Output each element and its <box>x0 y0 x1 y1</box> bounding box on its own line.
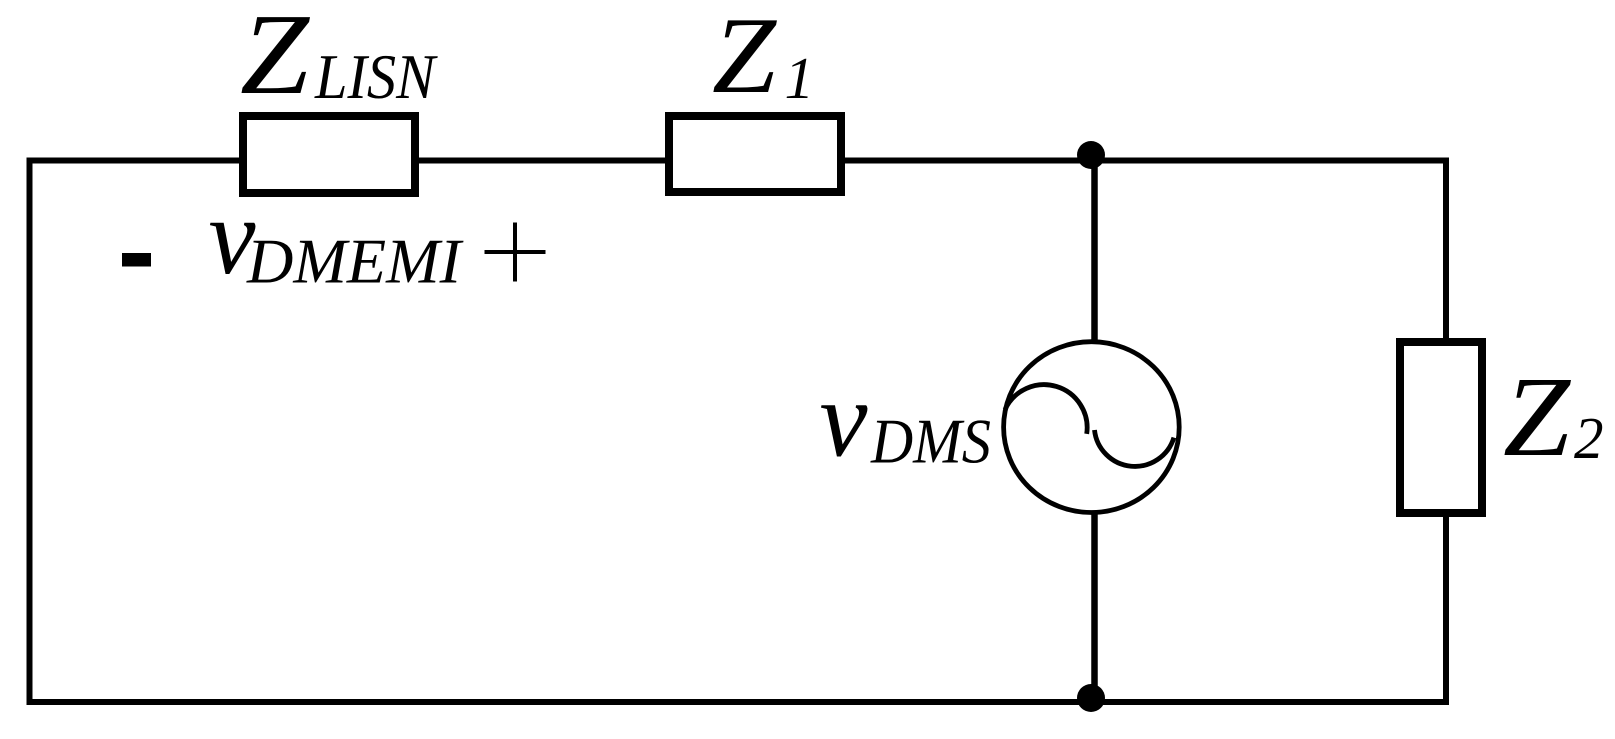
svg-text:Z: Z <box>1503 353 1572 480</box>
wire: outer loop (top-left, left, bottom, right, top-right segments) <box>30 161 1447 703</box>
svg-text:DMS: DMS <box>870 407 991 477</box>
svg-text:LISN: LISN <box>314 42 438 112</box>
wire: top segment between Z_LISN and Z1 <box>417 158 667 164</box>
label Z_LISN <box>240 0 438 118</box>
AC source v_DMS circle <box>1004 342 1180 513</box>
wire: source branch top <box>1091 155 1098 343</box>
resistor Z2 box <box>1400 342 1482 513</box>
label vDMS <box>820 359 992 480</box>
junction node (bottom) <box>1077 684 1105 712</box>
svg-text:Z: Z <box>240 0 310 118</box>
resistor Z_LISN box <box>243 116 415 193</box>
label Z1 <box>712 0 814 116</box>
svg-text:DMEMI: DMEMI <box>246 226 464 297</box>
label Z2 <box>1503 353 1604 480</box>
svg-text:1: 1 <box>785 45 815 111</box>
label - (minus, voltage polarity) <box>122 253 151 267</box>
junction node (top) <box>1077 141 1105 169</box>
label vDMEMI <box>209 176 464 297</box>
svg-text:Z: Z <box>712 0 777 116</box>
AC source sine wave <box>1005 385 1174 467</box>
svg-text:2: 2 <box>1574 405 1604 471</box>
wire: source branch bottom <box>1091 511 1098 699</box>
label + (plus, voltage polarity) <box>485 223 546 282</box>
svg-text:v: v <box>820 359 869 480</box>
resistor Z1 box <box>669 116 841 192</box>
